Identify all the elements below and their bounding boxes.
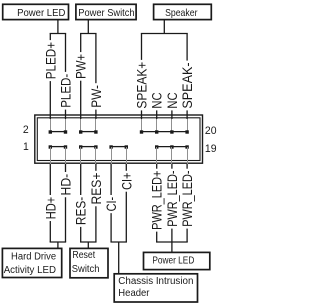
svg-text:PWR_LED+: PWR_LED+	[149, 171, 165, 230]
wire Power Switch feed	[87, 20, 89, 34]
svg-text:2: 2	[23, 124, 29, 136]
wire NC (pin column 9 top)	[165, 92, 180, 132]
wire PLED pair bracket	[50, 33, 67, 35]
svg-text:Power LED: Power LED	[152, 255, 194, 266]
wire PW- (pin column 4 top)	[88, 34, 104, 133]
wire CI- (pin column 5 bottom)	[104, 147, 120, 242]
wire HD- (pin column 2 bottom)	[58, 147, 74, 242]
svg-text:PW+: PW+	[73, 54, 89, 79]
svg-text:Switch: Switch	[72, 264, 100, 275]
connector outer border	[35, 115, 203, 163]
link pins 6-8	[81, 131, 96, 133]
svg-text:PLED-: PLED-	[57, 74, 73, 108]
wire HD+ (pin column 1 bottom)	[43, 147, 59, 242]
svg-text:Hard Drive: Hard Drive	[11, 251, 56, 262]
connector inner border	[37, 118, 200, 161]
link pins 5-7	[81, 146, 96, 148]
svg-text:NC: NC	[165, 92, 180, 108]
svg-text:PW-: PW-	[88, 85, 104, 108]
wire RES- (pin column 3 bottom)	[73, 147, 89, 242]
wire Hard Drive Activity LED feed	[57, 242, 59, 248]
pin 5	[79, 145, 82, 148]
pin 15	[155, 145, 158, 148]
wire SPEAK+ (pin column 7 top)	[134, 34, 150, 133]
wire Power LED (bottom) feed	[171, 242, 173, 252]
svg-text:Chassis Intrusion: Chassis Intrusion	[118, 276, 193, 287]
svg-text:Power LED: Power LED	[17, 8, 65, 19]
svg-text:20: 20	[205, 125, 217, 137]
pin 14	[140, 130, 143, 133]
box Hard Drive Activity LED	[2, 248, 61, 277]
svg-text:CI-: CI-	[104, 197, 120, 212]
box Speaker	[154, 4, 212, 19]
pin 8	[94, 130, 97, 133]
box Reset Switch	[70, 248, 108, 277]
svg-text:1: 1	[23, 141, 29, 153]
wire Speaker feed	[163, 20, 165, 34]
svg-text:RES-: RES-	[73, 197, 89, 225]
pin 20	[185, 130, 188, 133]
svg-text:HD-: HD-	[58, 174, 74, 196]
wire Reset Switch feed	[87, 242, 89, 248]
wire SPEAK- (pin column 10 top)	[179, 34, 195, 133]
svg-text:PWR_LED-: PWR_LED-	[165, 171, 181, 227]
svg-text:HD+: HD+	[43, 197, 59, 219]
link pins 2-4	[50, 131, 65, 133]
wire PW pair bracket	[80, 33, 97, 35]
wire PWR_LED- (pin column 10 bottom)	[180, 147, 196, 242]
box Power Switch	[76, 4, 136, 19]
box Power LED (bottom)	[144, 252, 210, 269]
pin 16	[155, 130, 158, 133]
svg-text:SPEAK+: SPEAK+	[134, 62, 150, 109]
svg-text:NC: NC	[150, 92, 165, 108]
pin 17	[170, 145, 173, 148]
wire RES pair bracket	[80, 241, 97, 243]
wire PLED+ (pin column 1 top)	[42, 34, 58, 133]
wire HD pair bracket	[50, 241, 67, 243]
link pins 15-19	[157, 146, 187, 148]
pin 11	[125, 145, 128, 148]
wire CI pair bracket	[110, 241, 127, 243]
pin 7	[94, 145, 97, 148]
svg-text:SPEAK-: SPEAK-	[179, 62, 195, 108]
svg-text:PWR_LED-: PWR_LED-	[180, 171, 196, 227]
link pins 14-20	[142, 131, 188, 133]
link pins 9-11	[111, 146, 126, 148]
pin 6	[79, 130, 82, 133]
svg-text:Activity LED: Activity LED	[4, 265, 56, 276]
wire PW+ (pin column 3 top)	[73, 34, 89, 133]
wire Speaker bracket	[141, 33, 188, 35]
wire PLED- (pin column 2 top)	[57, 34, 73, 133]
svg-text:19: 19	[205, 143, 217, 155]
wire RES+ (pin column 4 bottom)	[88, 147, 104, 242]
pin 19	[185, 145, 188, 148]
wire Chassis Intrusion Header feed	[118, 242, 120, 274]
wire NC (pin column 8 top)	[150, 92, 165, 132]
svg-text:RES+: RES+	[88, 173, 104, 205]
svg-text:Speaker: Speaker	[165, 7, 197, 18]
link pins 1-3	[50, 146, 65, 148]
svg-text:Header: Header	[118, 288, 150, 299]
wire PWR_LED bracket	[156, 241, 188, 243]
svg-text:Power Switch: Power Switch	[78, 8, 134, 19]
svg-text:Reset: Reset	[72, 248, 95, 260]
svg-text:PLED+: PLED+	[42, 42, 58, 79]
box Chassis Intrusion Header	[114, 274, 197, 302]
pin 9	[109, 145, 112, 148]
pin 1	[49, 145, 52, 148]
box Power LED (top)	[3, 4, 69, 19]
wire CI+ (pin column 6 bottom)	[119, 147, 135, 242]
pin 2	[49, 130, 52, 133]
pin 3	[64, 145, 67, 148]
pin 4	[64, 130, 67, 133]
pin 18	[170, 130, 173, 133]
wire Power LED feed	[57, 20, 59, 34]
wire PWR_LED- (pin column 9 bottom)	[165, 147, 181, 242]
svg-text:CI+: CI+	[119, 173, 135, 190]
wire PWR_LED+ (pin column 8 bottom)	[149, 147, 165, 242]
